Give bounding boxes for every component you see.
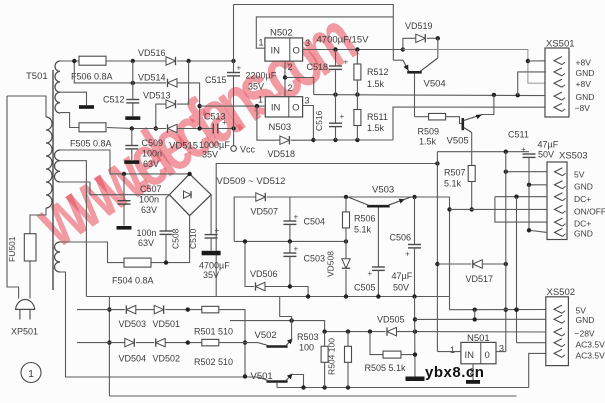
- svg-text:GND: GND: [576, 315, 595, 325]
- transistor V502: [267, 345, 288, 348]
- svg-text:C505: C505: [354, 283, 376, 293]
- svg-text:C508: C508: [171, 228, 181, 249]
- svg-text:R509: R509: [418, 127, 440, 137]
- svg-text:2: 2: [288, 62, 293, 72]
- wire winding2 bottom tap: [60, 182, 169, 195]
- svg-text:VD516: VD516: [138, 48, 166, 58]
- svg-text:100n: 100n: [142, 149, 162, 159]
- wire bottom bus 1: [277, 387, 529, 389]
- wire DC+ column to XS502: [516, 197, 518, 343]
- svg-text:VD513: VD513: [143, 91, 171, 101]
- wire AC3.5V 2: [529, 353, 546, 387]
- wire rect row 2: [77, 342, 125, 344]
- svg-text:C504: C504: [304, 217, 326, 227]
- svg-text:AC3.5V: AC3.5V: [576, 351, 605, 361]
- diode VD517 row: [437, 263, 471, 265]
- fuse FU501: [29, 234, 31, 299]
- capacitor C509: [131, 129, 133, 146]
- svg-text:1: 1: [450, 345, 455, 355]
- transistor V501: [267, 380, 288, 383]
- transistor V505: [461, 118, 464, 130]
- capacitor C515: [233, 61, 235, 73]
- connector XS501: [545, 48, 569, 117]
- svg-text:50V: 50V: [538, 150, 554, 160]
- resistor R507: [468, 166, 475, 182]
- wire left column x437: [436, 152, 438, 352]
- svg-text:VD509 ~ VD512: VD509 ~ VD512: [217, 176, 286, 187]
- resistor R509: [415, 116, 429, 118]
- diode VD514: [168, 79, 178, 87]
- svg-text:0: 0: [485, 350, 490, 361]
- ground bar x415: [406, 377, 425, 382]
- svg-text:4700µF: 4700µF: [199, 261, 230, 271]
- wire N502 pin2: [284, 61, 286, 97]
- svg-text:IN: IN: [271, 103, 281, 114]
- wire R507 bottom: [471, 182, 473, 210]
- page marker circle 1: [21, 363, 41, 383]
- svg-text:N503: N503: [269, 122, 292, 133]
- svg-text:GND: GND: [574, 229, 593, 239]
- svg-text:100n: 100n: [137, 228, 157, 238]
- wire N503 input row: [200, 105, 265, 107]
- wire pin2 to gnd bus: [285, 78, 314, 95]
- svg-text:R504 100: R504 100: [327, 338, 337, 375]
- svg-text:1: 1: [258, 95, 263, 105]
- svg-text:T501: T501: [26, 71, 48, 82]
- svg-text:V501: V501: [251, 371, 273, 382]
- svg-text:Vcc: Vcc: [240, 145, 256, 155]
- wire V505 collector: [471, 133, 473, 166]
- svg-text:V502: V502: [255, 330, 277, 341]
- svg-text:F505 0.8A: F505 0.8A: [70, 139, 112, 149]
- wire ground descender from winding2 mid tap: [60, 161, 86, 297]
- svg-text:XS501: XS501: [546, 39, 575, 50]
- svg-text:+: +: [344, 58, 349, 67]
- fuse F504: [124, 258, 151, 267]
- svg-text:4700µF/15V: 4700µF/15V: [317, 35, 370, 46]
- svg-text:XS503: XS503: [559, 151, 588, 162]
- svg-text:35V: 35V: [202, 150, 218, 160]
- resistor R501: [202, 306, 219, 313]
- resistor R504: [347, 332, 349, 347]
- svg-text:AC3.5V: AC3.5V: [576, 340, 605, 350]
- wire bridge bottom to F504: [151, 216, 190, 263]
- svg-text:F506 0.8A: F506 0.8A: [71, 72, 113, 82]
- svg-text:R505 5.1k: R505 5.1k: [365, 363, 407, 373]
- svg-text:VD514: VD514: [138, 73, 166, 83]
- transformer T501 primary winding: [46, 117, 52, 208]
- resistor R512: [356, 50, 358, 65]
- svg-text:IN: IN: [465, 350, 475, 361]
- svg-text:VD518: VD518: [268, 149, 296, 159]
- wire mid row y241: [234, 240, 346, 242]
- svg-text:N502: N502: [270, 28, 293, 39]
- resistor R505: [370, 332, 383, 355]
- rectifier bridge VD509-VD512: [169, 174, 211, 216]
- diode VD506: [256, 282, 266, 290]
- wire AC3.5V 1: [517, 342, 547, 344]
- svg-text:C513: C513: [204, 112, 226, 122]
- diode VD508: [345, 241, 347, 258]
- transistor V503: [367, 205, 390, 208]
- capacitor C504: [289, 197, 291, 221]
- wire bottom bus of box: [87, 296, 450, 298]
- wire V501 collector: [292, 375, 304, 388]
- diode VD503: [126, 305, 136, 313]
- wire N502 out rail: [303, 49, 403, 51]
- capacitor C510: [210, 195, 212, 235]
- wire VD507 row: [234, 197, 256, 241]
- svg-text:R507: R507: [444, 168, 466, 178]
- svg-text:V504: V504: [424, 79, 446, 90]
- svg-text:C507: C507: [140, 184, 162, 194]
- svg-text:R506: R506: [354, 214, 376, 224]
- plug XP501: [16, 300, 35, 310]
- wire VD514 row: [133, 82, 166, 84]
- wire N502 pin1 from raw rail: [256, 17, 393, 48]
- capacitor C518: [335, 50, 337, 67]
- resistor R511: [356, 95, 358, 110]
- svg-text:V503: V503: [372, 185, 394, 196]
- svg-text:−8V: −8V: [575, 103, 591, 113]
- svg-text:47µF: 47µF: [538, 140, 559, 150]
- svg-text:DC+: DC+: [574, 219, 591, 229]
- svg-text:XS502: XS502: [547, 287, 576, 298]
- capacitor C516: [335, 95, 337, 124]
- svg-text:C516: C516: [314, 110, 324, 131]
- svg-text:R512: R512: [367, 67, 389, 77]
- ground bar (winding tap): [79, 105, 94, 109]
- wire XS503 ON/OFF: [450, 208, 548, 210]
- svg-text:3: 3: [305, 38, 310, 48]
- regulator N502: [265, 38, 303, 61]
- svg-text:O: O: [292, 103, 299, 114]
- wire XS501 gnd pin2: [518, 72, 546, 95]
- svg-text:VD507: VD507: [251, 207, 279, 217]
- ground bar C512: [125, 116, 140, 120]
- svg-text:35V: 35V: [248, 82, 264, 92]
- wire C511 rail: [437, 151, 529, 153]
- svg-text:O: O: [293, 46, 300, 57]
- svg-text:+: +: [405, 250, 410, 259]
- diode VD518 branch: [257, 106, 280, 140]
- svg-text:+: +: [294, 245, 299, 254]
- svg-text:+: +: [340, 112, 345, 121]
- svg-text:−28V: −28V: [575, 329, 595, 339]
- wire N501 pin3: [496, 351, 506, 353]
- diode VD513 branch: [156, 104, 166, 128]
- svg-text:VD519: VD519: [405, 21, 433, 31]
- svg-text:+: +: [237, 64, 242, 73]
- svg-text:5.1k: 5.1k: [444, 179, 462, 189]
- svg-text:47µF: 47µF: [392, 271, 413, 281]
- capacitor C507: [123, 174, 125, 201]
- svg-text:+: +: [215, 226, 220, 235]
- wire -28V rail: [325, 331, 386, 333]
- svg-text:ybx8.cn: ybx8.cn: [425, 364, 484, 381]
- svg-text:1000µF: 1000µF: [199, 140, 230, 150]
- svg-text:100n: 100n: [139, 195, 159, 205]
- wire N501 out row y309: [450, 309, 547, 311]
- wire XS503 GND1: [529, 184, 547, 186]
- svg-text:GND: GND: [576, 92, 595, 102]
- wire winding2 top tap: [60, 150, 190, 174]
- wire +8V feed from regulator rail: [403, 50, 546, 84]
- svg-text:XP501: XP501: [11, 327, 38, 337]
- resistor R502: [202, 339, 219, 346]
- svg-text:3: 3: [305, 96, 310, 106]
- svg-text:VD506: VD506: [250, 269, 278, 279]
- svg-text:1.5k: 1.5k: [419, 137, 437, 147]
- svg-text:+8V: +8V: [576, 58, 592, 68]
- ground bar C509: [124, 160, 139, 164]
- svg-text:C509: C509: [142, 138, 164, 148]
- resistor R506: [345, 197, 347, 212]
- wire rail -8 bus C: [313, 139, 393, 141]
- svg-text:C512: C512: [103, 95, 125, 105]
- transformer secondary winding 3: [55, 242, 61, 272]
- svg-text:100: 100: [299, 343, 314, 353]
- wire gnd row to XS502: [415, 318, 546, 320]
- svg-text:+8V: +8V: [576, 79, 592, 89]
- svg-text:F504 0.8A: F504 0.8A: [112, 276, 154, 286]
- svg-text:VD503: VD503: [119, 319, 147, 329]
- svg-text:2: 2: [288, 83, 293, 93]
- svg-text:C511: C511: [508, 130, 529, 140]
- diode VD501: [154, 305, 164, 313]
- capacitor C511: [523, 153, 536, 155]
- wire VD514 feed vertical: [74, 61, 133, 83]
- wire V505 emitter to gnd bus: [482, 95, 494, 115]
- ground bar N501: [466, 380, 480, 384]
- diode VD504: [125, 338, 135, 346]
- wire rail B y128 (from F505): [132, 128, 166, 130]
- ground bar C507: [117, 226, 132, 230]
- svg-text:R502 510: R502 510: [194, 357, 233, 367]
- svg-text:63V: 63V: [143, 159, 159, 169]
- transformer T501 core: [52, 70, 54, 290]
- svg-text:VD505: VD505: [377, 315, 405, 325]
- svg-text:R503: R503: [297, 332, 319, 342]
- svg-text:50V: 50V: [393, 283, 409, 293]
- diode VD516: [166, 57, 176, 65]
- svg-text:63V: 63V: [138, 238, 154, 248]
- wire feed column x110: [108, 297, 110, 397]
- capacitor C508: [166, 195, 169, 231]
- capacitor C506: [414, 197, 416, 245]
- ground bar C510: [202, 251, 221, 256]
- wire winding3 bottom descender: [60, 272, 258, 377]
- wire R501 jog to -28 rail: [219, 310, 245, 377]
- capacitor C512: [132, 61, 134, 100]
- svg-text:+: +: [521, 145, 526, 154]
- svg-text:VD515: VD515: [169, 141, 198, 152]
- wire V503 base / capacitor C505: [377, 208, 379, 268]
- wire XS503 gnd column: [529, 185, 547, 233]
- transformer secondary winding 2: [55, 150, 61, 182]
- wire rect row 1: [77, 309, 125, 311]
- svg-text:+: +: [368, 269, 373, 278]
- svg-text:C510: C510: [188, 228, 198, 249]
- connector XS503: [547, 162, 567, 240]
- regulator N501: [461, 342, 496, 363]
- diode VD518: [280, 136, 290, 144]
- svg-text:C518: C518: [307, 62, 329, 72]
- diode VD519: [403, 38, 416, 49]
- wire winding3 top tap: [60, 242, 124, 263]
- connector XS502: [546, 297, 569, 366]
- wire bottom bus 2: [109, 395, 516, 397]
- wire rail A y61: [133, 60, 166, 62]
- transformer secondary winding 1: [55, 61, 60, 113]
- wire right column x449: [449, 197, 451, 310]
- wire top rail y4.5: [234, 5, 394, 61]
- diode VD507: [256, 193, 265, 201]
- svg-text:2200µF: 2200µF: [246, 71, 277, 81]
- svg-text:ON/OFF: ON/OFF: [574, 207, 605, 217]
- wire VD506 row: [245, 241, 254, 286]
- wire gnd bus B: [314, 95, 546, 96]
- svg-text:C503: C503: [304, 254, 326, 264]
- fuse F505: [60, 113, 79, 128]
- regulator N503: [265, 97, 302, 117]
- wire N501 pin2 gnd: [472, 364, 474, 380]
- svg-text:5.1k: 5.1k: [354, 225, 372, 235]
- svg-text:1.5k: 1.5k: [367, 79, 385, 89]
- svg-text:63V: 63V: [141, 205, 157, 215]
- svg-text:R511: R511: [367, 112, 388, 122]
- svg-text:FU501: FU501: [7, 236, 17, 262]
- wire V503 rail y197: [290, 196, 450, 198]
- svg-text:GND: GND: [576, 68, 595, 78]
- wire primary top lead: [7, 96, 46, 117]
- svg-text:5V: 5V: [576, 306, 587, 316]
- svg-text:IN: IN: [271, 46, 281, 57]
- wire 5V column: [505, 152, 507, 352]
- wire XS503 DC+ pair: [495, 196, 547, 198]
- svg-text:35V: 35V: [203, 270, 219, 280]
- svg-text:5V: 5V: [574, 170, 585, 180]
- svg-text:VD504: VD504: [119, 354, 147, 364]
- svg-text:C506: C506: [390, 233, 412, 243]
- capacitor C513: [212, 124, 214, 134]
- wire N503 pin3 to -8 rail: [303, 106, 314, 141]
- diode VD513: [166, 100, 176, 108]
- svg-text:C515: C515: [205, 75, 227, 85]
- wire gnd column x415: [414, 297, 417, 377]
- svg-text:VD501: VD501: [153, 319, 181, 329]
- wire winding1 mid tap to ground: [60, 92, 87, 105]
- wire V504 base: [414, 74, 416, 117]
- svg-text:VD508: VD508: [326, 251, 336, 277]
- svg-text:1.5k: 1.5k: [367, 123, 385, 133]
- svg-text:+: +: [294, 213, 299, 222]
- svg-text:GND: GND: [574, 182, 593, 192]
- svg-text:VD517: VD517: [466, 274, 494, 284]
- svg-text:R501 510: R501 510: [194, 327, 233, 337]
- sub-circuit enclosure wires: [216, 164, 437, 297]
- diode VD505: [387, 327, 397, 335]
- capacitor C503: [289, 241, 291, 253]
- svg-text:N501: N501: [467, 333, 490, 344]
- wire stub x474: [474, 310, 476, 320]
- wire V502 collector to bus: [280, 297, 292, 340]
- wire mains left: [7, 96, 19, 299]
- diode VD515: [168, 124, 178, 132]
- svg-text:V505: V505: [447, 136, 469, 147]
- wire primary bottom lead: [30, 208, 46, 234]
- wire XS503 5V: [506, 171, 547, 173]
- svg-text:VD502: VD502: [153, 354, 181, 364]
- diode VD502: [156, 338, 166, 346]
- wire N501 pin1: [437, 351, 461, 353]
- fuse F506: [60, 60, 79, 62]
- transistor V504: [393, 59, 403, 61]
- svg-text:1: 1: [28, 368, 34, 380]
- terminal Vcc: [233, 129, 235, 146]
- wire -28V to XS502: [415, 331, 546, 333]
- svg-text:DC+: DC+: [574, 194, 591, 204]
- svg-text:1: 1: [259, 38, 264, 48]
